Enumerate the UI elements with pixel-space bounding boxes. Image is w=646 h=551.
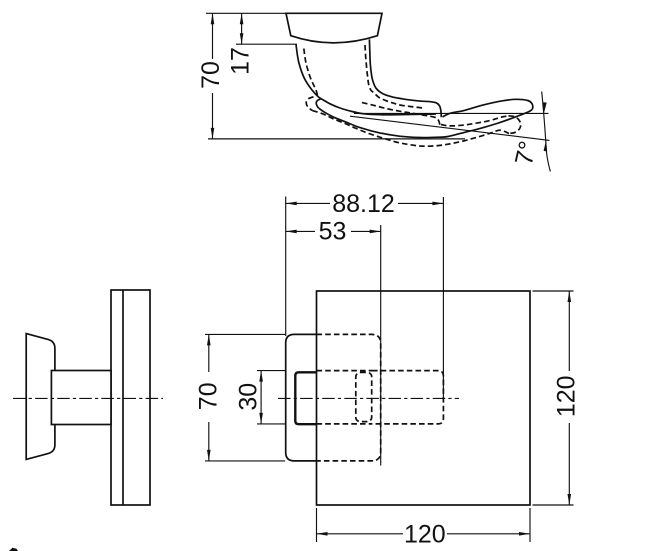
front view: label front 70 <box>198 372 219 422</box>
svg-text:7°: 7° <box>510 138 543 168</box>
svg-text:120: 120 <box>404 521 446 549</box>
side view: stem rectangle <box>51 371 111 425</box>
front view: dim line 30 <box>260 371 262 424</box>
side view: plate face line <box>122 290 124 505</box>
top view: angle arc 7deg <box>542 92 551 172</box>
top view: arm step edge (solid) <box>430 102 441 118</box>
top view: arrow angle top <box>543 102 547 113</box>
front view: arrow 120b left <box>317 532 328 536</box>
front view: arrow f70 bottom <box>207 450 211 461</box>
top view: arrow 17 bottom <box>240 33 244 44</box>
front view: ext line 120 right top <box>533 290 574 292</box>
side view: cap profile <box>26 334 55 460</box>
logo fragment bottom-left corner <box>9 548 18 551</box>
front view: arrow f70 top <box>207 334 211 345</box>
top view: rotated neck left edge (dashed) <box>304 49 318 96</box>
front view: arrow 120r top <box>568 291 572 302</box>
front view: socket hidden slot (dashed small rounded rect) <box>356 372 372 421</box>
top view: rotated tip top edge (dashed) <box>441 116 509 126</box>
top view: extension line from cap top to 70 dim <box>206 12 286 14</box>
top view: hook outer bottom sweep + tip underside (solid) <box>319 108 532 137</box>
top view: hook neck right edge / arm top (solid) <box>369 39 430 101</box>
front view: dim line 88.12 <box>286 202 444 204</box>
top view: rotated bottom sweep (dashed) <box>312 110 509 146</box>
front view: arrow 30 top <box>259 371 263 382</box>
svg-text:30: 30 <box>235 383 263 411</box>
front view: label 88.12 <box>330 193 398 214</box>
front view: cap visible part (solid) <box>286 334 317 461</box>
front view: dim line 70 <box>208 334 210 461</box>
top view: hook tip top edge (solid) <box>443 99 533 117</box>
side view: centerline <box>13 397 163 399</box>
front view: stem visible front (thick rounded) <box>295 372 316 424</box>
svg-text:70: 70 <box>194 382 222 410</box>
front view: ext line 70 top <box>205 333 285 335</box>
top view: rotated lip top edge (dashed) <box>362 103 440 125</box>
top view: baseline (wall plane) <box>208 138 465 140</box>
front view: ext line 30 top <box>257 370 286 372</box>
front view: arrow 88.12 right <box>432 202 443 206</box>
front view: ext line 70 bottom <box>205 460 285 462</box>
front view: centerline horizontal <box>278 397 459 399</box>
front view: label 120 bottom <box>403 523 447 544</box>
side view: wall plate slab <box>111 290 150 505</box>
top view: dim line 70 vertical <box>212 13 214 139</box>
front view: ext line 30 bottom <box>257 423 286 425</box>
front view: stem hidden band top (dashed) <box>317 370 373 372</box>
top view: extension line 17 bottom <box>236 43 297 45</box>
top view: arrow 70 bottom <box>211 128 215 139</box>
front view: ext line 120 bottom left <box>316 508 318 542</box>
front view: stem hidden band bottom (dashed) <box>317 423 373 425</box>
top view: label 70 <box>199 59 222 93</box>
svg-text:120: 120 <box>552 375 580 417</box>
top view: dim line 17 vertical <box>241 13 243 44</box>
front view: dim line 53 <box>286 230 381 232</box>
svg-text:17: 17 <box>227 47 255 75</box>
svg-text:53: 53 <box>319 218 347 246</box>
svg-text:70: 70 <box>197 61 225 89</box>
front view: cap hidden outline (dashed rounded rect) <box>317 334 381 461</box>
top view: arrow angle bottom <box>544 140 548 151</box>
top view: hook neck left edge (solid) <box>296 44 321 99</box>
front view: dim line 120 bottom <box>317 533 531 535</box>
front view: dim line 120 right <box>568 291 570 505</box>
top view: arrow 70 top <box>211 13 215 24</box>
top view: arrow 17 top <box>240 13 244 24</box>
front view: arrow 88.12 left <box>286 202 297 206</box>
top view: rotated tip end round (dashed) <box>509 116 521 134</box>
front view: square plate 120x120 <box>317 291 531 505</box>
front view: arrow 53 left <box>286 230 297 234</box>
top view: cap (wall mount cup) outline <box>286 13 382 43</box>
front view: arrow 120b right <box>519 532 530 536</box>
front view: label 120 right <box>558 371 580 423</box>
top view: rotated neck right edge (dashed) <box>365 45 424 108</box>
front view: arrow 30 bottom <box>259 413 263 424</box>
front view: ext line left (cap left edge up) <box>285 197 287 337</box>
top view: hook lip curl left end (solid) <box>316 99 321 108</box>
top view: hook lip top edge (solid) <box>320 98 436 115</box>
front view: label 53 <box>315 221 351 242</box>
front view: ext line 88.12 right <box>442 197 444 398</box>
front view: ext line 53 right <box>380 225 382 466</box>
front view: arrow 53 right <box>370 230 381 234</box>
top view: surface reference line (thin) <box>354 112 549 114</box>
front view: ext line 120 right bottom <box>533 504 574 506</box>
front view: ext line 120 bottom right <box>529 508 531 542</box>
svg-text:88.12: 88.12 <box>332 190 395 218</box>
front view: arrow 120r bottom <box>568 494 572 505</box>
front view: hook arm hidden outline (dashed) <box>372 371 443 424</box>
top view: rotated lip curl (dashed) <box>306 97 313 111</box>
top view: rotated surface line (thin) <box>350 116 550 140</box>
